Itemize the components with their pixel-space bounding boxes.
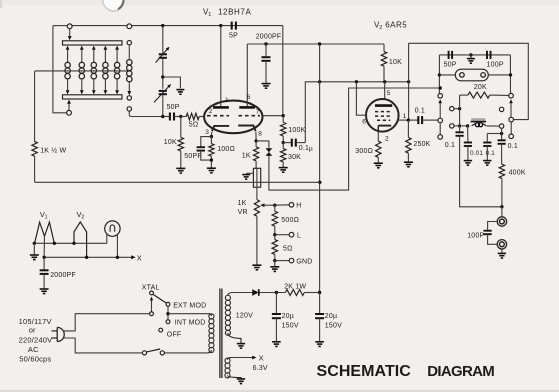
node: oval row left bbox=[438, 73, 441, 76]
label 20µ 150V (1) bbox=[282, 313, 299, 329]
wire: branch to 50PF bbox=[201, 137, 212, 147]
ground below 0.01 bbox=[464, 161, 472, 166]
switch bar bottom (band selector) bbox=[63, 95, 123, 99]
ground 6.3V secondary bbox=[237, 379, 245, 384]
capacitor 100P (range) bbox=[487, 51, 491, 59]
label 500Ω bbox=[281, 217, 299, 224]
resistor 10K (grid leak) bbox=[178, 137, 183, 151]
svg-text:X: X bbox=[259, 353, 264, 362]
node: GND junction bbox=[273, 259, 276, 262]
heater V1 filament bbox=[35, 222, 55, 243]
capacitor 0.1 (left) bbox=[456, 132, 464, 136]
wire: lead through shield to VR bbox=[256, 168, 258, 199]
svg-text:100P: 100P bbox=[487, 61, 504, 68]
label 100P (output) bbox=[467, 233, 484, 240]
ground below attenuator bbox=[270, 267, 279, 272]
switch D contact 1 bbox=[499, 107, 503, 111]
V1 grid 2 dashed bbox=[239, 115, 261, 117]
svg-text:300Ω: 300Ω bbox=[355, 148, 373, 155]
node: grid line left bbox=[161, 115, 164, 118]
svg-text:1: 1 bbox=[225, 97, 229, 104]
switch C wiper blade bbox=[509, 99, 513, 117]
wire: from lower terminal to grid line bbox=[129, 111, 163, 116]
label XTAL bbox=[142, 284, 160, 291]
node: riser/pin5 branch bbox=[383, 80, 386, 83]
svg-text:100K: 100K bbox=[288, 127, 305, 134]
pilot lamp bbox=[105, 221, 120, 236]
node: pin 8 junction bbox=[254, 139, 257, 142]
svg-text:3: 3 bbox=[205, 129, 209, 136]
label L bbox=[297, 233, 301, 240]
pin label 1 (V2) bbox=[403, 113, 407, 120]
label OFF bbox=[167, 331, 182, 338]
transformer primary winding bbox=[207, 314, 214, 353]
punch hole bbox=[103, 0, 124, 11]
V2 plate bar bbox=[375, 104, 392, 107]
wire: 2K to B+ node bbox=[304, 292, 319, 294]
resistor 2K 1W bbox=[285, 290, 304, 296]
power switch contact 1 bbox=[142, 351, 146, 355]
svg-text:2: 2 bbox=[209, 108, 213, 115]
terminal H bbox=[289, 203, 294, 208]
coil L2 with selector arrows bbox=[79, 46, 84, 95]
label INT MOD bbox=[175, 320, 206, 327]
label 1K VR bbox=[238, 200, 248, 216]
label 5Ω bbox=[189, 122, 199, 129]
capacitor 100P (output) bbox=[484, 231, 492, 235]
svg-text:H: H bbox=[296, 203, 301, 210]
ground cap row bbox=[467, 59, 475, 64]
svg-text:120V: 120V bbox=[236, 313, 253, 320]
pin label 7 bbox=[256, 109, 260, 116]
label V1 (heater) bbox=[40, 210, 48, 220]
capacitor 50PF bbox=[197, 147, 205, 150]
capacitor 20µ-1 bbox=[272, 293, 281, 342]
wire: rectifier bus bbox=[233, 292, 285, 294]
svg-text:0.1: 0.1 bbox=[299, 145, 309, 152]
resistor 100Ω (cathode 1) bbox=[209, 137, 214, 168]
node: B+ bus1 junction bbox=[318, 181, 321, 184]
svg-text:5Ω: 5Ω bbox=[189, 122, 199, 129]
switch A link bbox=[439, 123, 441, 135]
resistor 1K (cathode 2) bbox=[254, 141, 259, 168]
wire: heater bus 2 (X net) bbox=[44, 255, 136, 259]
svg-text:µ: µ bbox=[309, 146, 313, 153]
svg-text:0.01: 0.01 bbox=[470, 150, 483, 157]
node: pin7/100K junction bbox=[282, 114, 285, 117]
switch A contact 3 bbox=[438, 135, 443, 140]
resistor 5Ω (grid stopper) bbox=[181, 113, 205, 119]
variable capacitor CV1 (tuning) bbox=[156, 47, 170, 63]
svg-text:GND: GND bbox=[296, 259, 312, 266]
label H bbox=[296, 203, 301, 210]
wire: pin 6 branch bbox=[356, 82, 366, 115]
label 2K 1W bbox=[284, 284, 306, 291]
variable capacitor CV2 (trimmer) bbox=[154, 84, 171, 102]
svg-text:6AR5: 6AR5 bbox=[385, 20, 407, 29]
wire: V1 heater center tap bbox=[43, 236, 45, 257]
resistor 250K bbox=[406, 120, 411, 162]
label 100P (range) bbox=[487, 61, 504, 68]
terminal bottom-left bbox=[67, 110, 72, 115]
V2 cathode bbox=[378, 126, 391, 132]
terminal EXT MOD bbox=[166, 302, 170, 306]
svg-text:1: 1 bbox=[208, 12, 211, 18]
V1 plate 2 lead bbox=[246, 44, 248, 106]
wire: B+ top bus (plate supply) bbox=[247, 43, 384, 45]
diode clamp branch wire bbox=[256, 141, 269, 148]
ground 20µ-1 bbox=[272, 342, 281, 347]
switch wafer A common bbox=[438, 94, 443, 99]
wire: branch to trimmer ground bbox=[163, 77, 181, 88]
svg-text:SCHEMATIC: SCHEMATIC bbox=[317, 363, 412, 380]
svg-text:220/240V: 220/240V bbox=[19, 335, 53, 344]
V1 plate 1 bar bbox=[213, 106, 229, 109]
wire: heater bus 1 bbox=[34, 242, 107, 244]
label 0.1µ bbox=[299, 145, 313, 153]
label 50P bbox=[167, 104, 180, 111]
label GND bbox=[296, 259, 312, 266]
node: oval row right bbox=[509, 73, 512, 76]
plug-in coil lower terminal 1 bbox=[127, 96, 131, 100]
svg-text:VR: VR bbox=[238, 209, 248, 216]
node: mod junction bbox=[166, 312, 169, 315]
node: heater bus1 left bbox=[33, 242, 36, 245]
terminal pivot bbox=[150, 312, 154, 316]
V2 grid 3 dashed bbox=[375, 111, 392, 113]
capacitor 20µ-2 bbox=[315, 293, 324, 342]
svg-text:50PF: 50PF bbox=[184, 153, 202, 160]
wire: pin 1 out bbox=[399, 119, 409, 121]
title SCHEMATIC DIAGRAM bbox=[317, 363, 495, 380]
label 5Ω (attenuator) bbox=[283, 246, 293, 253]
AC plug bbox=[51, 327, 64, 341]
switch blade XTAL-EXT bbox=[153, 294, 167, 303]
terminal T2 top-right bbox=[127, 24, 132, 29]
pin label 2 bbox=[209, 108, 213, 115]
svg-text:100Ω: 100Ω bbox=[217, 146, 235, 153]
wire: bottom-left terminal feed + arrow bbox=[67, 100, 71, 111]
label 20K bbox=[474, 84, 487, 91]
node: L junction bbox=[273, 233, 276, 236]
svg-text:2: 2 bbox=[385, 136, 389, 143]
output jack J2 (gnd) bbox=[497, 240, 506, 249]
label X (6.3V) bbox=[259, 353, 264, 362]
resistor 10K (V2 plate load) bbox=[381, 52, 386, 67]
wire: plug bottom lead bbox=[63, 338, 142, 353]
node: top bus to tuning cap bbox=[161, 24, 164, 27]
pin label 3 bbox=[205, 129, 209, 136]
svg-text:2000PF: 2000PF bbox=[256, 34, 282, 41]
wire: B+ rail vertical bbox=[319, 44, 321, 293]
wire: 100P to jack2 bbox=[488, 234, 498, 244]
iron-core choke bbox=[471, 118, 487, 127]
wire: oval right lead bbox=[488, 74, 510, 76]
V1 cathode 1 bbox=[212, 126, 229, 131]
node: output bus node bbox=[500, 205, 503, 208]
node: 2000PF tap bbox=[264, 42, 267, 45]
ground below 0.1 middle bbox=[483, 161, 491, 166]
wire: jog middle cap to D2 bbox=[487, 133, 501, 135]
label 0.1 (left) bbox=[445, 142, 455, 149]
label X bbox=[137, 253, 142, 262]
wire: left bracket around coil bank bbox=[53, 26, 67, 113]
label 100Ω bbox=[217, 146, 235, 153]
label 100K bbox=[288, 127, 305, 134]
wire: 10K grid leak drop bbox=[180, 117, 182, 138]
capacitor 2000PF (plate decoupling) bbox=[262, 44, 271, 83]
svg-text:0.1: 0.1 bbox=[415, 108, 425, 115]
switch wafer C common bbox=[509, 93, 514, 98]
label 50P (range) bbox=[444, 61, 457, 68]
wire: plug top lead bbox=[63, 314, 149, 331]
wire: top bus corner down to pin7 node bbox=[282, 26, 284, 116]
label 120V bbox=[236, 313, 253, 320]
transformer secondary 120V bbox=[225, 293, 241, 344]
label 0.1 (middle) bbox=[486, 150, 496, 157]
wire: 2000PF-2 to ground bbox=[43, 274, 45, 289]
wire: pivot riser with arrow bbox=[150, 297, 153, 312]
node: B2 node bbox=[458, 124, 461, 127]
V2 grid 1 dashed bbox=[377, 119, 390, 121]
label 5P bbox=[229, 33, 238, 40]
resistor 500Ω bbox=[272, 205, 277, 235]
diode pair (back-to-back) D1 bbox=[266, 148, 273, 156]
node: lamp on X bbox=[116, 256, 119, 259]
wire: attenuator ground stub bbox=[274, 261, 276, 267]
wire: shield ground stub bbox=[246, 172, 253, 174]
svg-text:1K: 1K bbox=[238, 200, 247, 207]
coil L4 with selector arrows bbox=[103, 46, 108, 95]
wire: 6.3V to X bbox=[231, 356, 256, 360]
node: grid junction bbox=[179, 115, 182, 118]
wire: pin1 riser from top bus C bbox=[408, 43, 410, 120]
wire: left column riser bbox=[438, 55, 440, 94]
svg-text:150V: 150V bbox=[325, 322, 342, 329]
svg-text:AC: AC bbox=[28, 345, 39, 354]
resistor 300Ω (V2 cathode) bbox=[376, 132, 381, 163]
ground below jack2 bbox=[498, 253, 506, 258]
label or bbox=[29, 326, 36, 335]
ground below 10K bbox=[176, 168, 185, 173]
wire: cap row top bbox=[439, 54, 510, 56]
ground 120V secondary bbox=[237, 344, 245, 349]
ground for shield bbox=[242, 175, 250, 180]
transformer core bbox=[220, 289, 222, 379]
node: riser/B+ rail cross bbox=[318, 80, 321, 83]
label 250K bbox=[413, 141, 430, 148]
wire: pin 7 to node bbox=[262, 115, 283, 117]
svg-text:50P: 50P bbox=[444, 61, 457, 68]
wire: jack2 ground stub bbox=[501, 249, 503, 253]
svg-text:INT MOD: INT MOD bbox=[175, 320, 206, 327]
svg-text:0.1: 0.1 bbox=[445, 142, 455, 149]
capacitor 0.1 (right) bbox=[498, 128, 506, 164]
terminal OFF bbox=[159, 328, 163, 332]
wire: heater bus1 ground stub bbox=[33, 243, 35, 254]
svg-text:50P: 50P bbox=[167, 104, 180, 111]
capacitor 5P (interstage) bbox=[232, 22, 236, 30]
svg-text:5Ω: 5Ω bbox=[283, 246, 293, 253]
pin label 2 bbox=[385, 136, 389, 143]
terminal INT MOD bbox=[166, 320, 170, 324]
wire: 10K to ground bbox=[180, 151, 182, 168]
node: VR feed join bbox=[439, 86, 442, 89]
label 220/240V bbox=[19, 335, 53, 344]
terminal L bbox=[289, 232, 294, 237]
wire: B+ corner to 10K bbox=[383, 44, 385, 52]
ground below 2000PF-2 bbox=[40, 289, 49, 294]
node: jog node bbox=[500, 132, 503, 135]
pin label 6 bbox=[247, 94, 251, 101]
output jack J1 (hot) bbox=[497, 217, 506, 226]
tube V1 12BH7A envelope bbox=[204, 101, 262, 134]
tube V2 6AR5 envelope bbox=[366, 99, 399, 132]
wire: EXT-INT link bbox=[167, 306, 169, 320]
V1 cathode 2 bbox=[238, 126, 256, 132]
node: cathode 1 junction bbox=[210, 135, 213, 138]
label AC bbox=[28, 345, 39, 354]
label V2 6AR5 bbox=[374, 20, 407, 30]
label 6.3V bbox=[253, 365, 268, 372]
ground below 2000PF bbox=[262, 84, 271, 89]
svg-text:or: or bbox=[29, 326, 36, 335]
resistor 20K bbox=[460, 92, 509, 98]
capacitor 50P (range) bbox=[449, 51, 453, 59]
shield box around output lead bbox=[253, 168, 260, 187]
terminal XTAL bbox=[150, 291, 154, 295]
capacitor 2000PF (heater bypass) bbox=[40, 270, 49, 274]
label 50PF bbox=[184, 153, 202, 160]
label 1K ½ W bbox=[40, 147, 66, 155]
rectifier diode bbox=[252, 289, 259, 296]
ground below VR bbox=[252, 265, 261, 270]
capacitor 0.1 (output coupling) bbox=[408, 116, 438, 124]
resistor 5Ω (attenuator) bbox=[272, 235, 277, 261]
choke row wire left bbox=[462, 125, 468, 127]
wire: to GND terminal bbox=[275, 260, 289, 262]
svg-text:EXT MOD: EXT MOD bbox=[173, 303, 206, 310]
svg-text:5P: 5P bbox=[229, 33, 238, 40]
node: trimmer branch bbox=[161, 75, 164, 78]
wire: CV2 down to grid line bbox=[162, 94, 164, 116]
node: riser right end bbox=[407, 80, 410, 83]
wire: lamp right lead bbox=[116, 234, 118, 257]
label V2 (heater) bbox=[77, 210, 85, 220]
wire: B+ bus1 to oscillator bbox=[35, 181, 320, 183]
svg-text:2000PF: 2000PF bbox=[50, 272, 76, 279]
svg-text:10K: 10K bbox=[389, 59, 402, 66]
node: pin 1 junction bbox=[407, 118, 410, 121]
node: B+ rail top bbox=[318, 42, 321, 45]
svg-text:100P: 100P bbox=[467, 233, 484, 240]
svg-text:OFF: OFF bbox=[167, 331, 182, 338]
switch C link bbox=[510, 122, 512, 134]
pin label 1 bbox=[225, 97, 229, 104]
svg-text:1K ½ W: 1K ½ W bbox=[40, 147, 66, 155]
VR wiper arrow bbox=[260, 203, 275, 207]
node: divider tap bbox=[282, 141, 285, 144]
label 105/117V bbox=[19, 317, 52, 326]
svg-text:20µ: 20µ bbox=[325, 313, 337, 320]
svg-text:2: 2 bbox=[81, 214, 84, 220]
wire: coil tap line bbox=[35, 70, 131, 72]
svg-text:DIAGRAM: DIAGRAM bbox=[427, 363, 494, 380]
switch bar top (band selector) bbox=[63, 41, 123, 45]
ground 20µ-2 bbox=[315, 342, 324, 347]
svg-text:0.1: 0.1 bbox=[508, 143, 518, 150]
svg-text:7: 7 bbox=[256, 109, 260, 116]
svg-text:20µ: 20µ bbox=[282, 313, 294, 320]
heater V2 filament bbox=[74, 222, 87, 257]
potentiometer 1K VR bbox=[254, 200, 259, 265]
wire: coupling riser to V2 grid row bbox=[305, 82, 408, 143]
label 10K (V2) bbox=[389, 59, 402, 66]
wire: right column riser bbox=[509, 55, 511, 93]
label 0.01 bbox=[470, 150, 483, 157]
svg-text:8: 8 bbox=[258, 130, 262, 137]
wire: B1 stub bbox=[454, 108, 460, 110]
pin label 6 (V2) bbox=[362, 119, 366, 126]
wire: 0.1 left down to out bus bbox=[460, 136, 502, 207]
switch C contact 3 bbox=[509, 134, 514, 139]
svg-text:150V: 150V bbox=[282, 322, 299, 329]
ground heater bus bbox=[30, 255, 39, 260]
wire: 10K to pin 5 bbox=[383, 66, 386, 99]
ground below 300Ω bbox=[374, 163, 383, 168]
svg-text:6.3V: 6.3V bbox=[253, 365, 268, 372]
label 400K bbox=[509, 170, 526, 177]
V1 plate 1 lead from top bus bbox=[219, 24, 222, 106]
svg-text:XTAL: XTAL bbox=[142, 284, 160, 291]
wire: switch to primary bbox=[164, 352, 207, 354]
node: 100Ω bottom bbox=[210, 158, 213, 161]
wire: to H terminal bbox=[275, 204, 289, 206]
capacitor 50P (grid series) bbox=[165, 113, 181, 121]
wire: bus C to right loop bbox=[409, 43, 529, 119]
node: cap row ground tap bbox=[469, 53, 472, 58]
svg-text:X: X bbox=[137, 253, 142, 262]
node: wiper junction bbox=[273, 204, 276, 207]
svg-text:1: 1 bbox=[403, 113, 407, 120]
label 50/60cps bbox=[19, 355, 51, 364]
wire: to L terminal bbox=[275, 234, 289, 236]
terminal GND bbox=[289, 258, 294, 263]
transformer secondary 6.3V bbox=[225, 358, 241, 379]
neon lamp oval bbox=[455, 69, 488, 81]
switch B contact 1 bbox=[450, 107, 454, 111]
svg-text:2K 1W: 2K 1W bbox=[284, 284, 306, 291]
resistor 30K bbox=[281, 143, 286, 168]
ground below 30K bbox=[279, 168, 288, 173]
wire: lamp left lead bbox=[106, 234, 108, 243]
svg-text:5: 5 bbox=[387, 90, 391, 97]
label 0.1 (right) bbox=[508, 143, 518, 150]
svg-text:1: 1 bbox=[45, 214, 48, 220]
coil L3 with selector arrows bbox=[91, 46, 96, 95]
label 300Ω bbox=[355, 148, 373, 155]
label EXT MOD bbox=[173, 303, 206, 310]
switch A contact 2 bbox=[438, 118, 443, 123]
svg-text:6: 6 bbox=[247, 94, 251, 101]
svg-text:20K: 20K bbox=[474, 84, 487, 91]
ground for trimmer branch bbox=[176, 90, 184, 95]
node: B+ output bbox=[318, 291, 321, 294]
node: X net left bbox=[42, 256, 45, 259]
wire: top bus A from left bracket to C-282 corner bbox=[53, 25, 283, 27]
V1 plate 2 bar bbox=[239, 106, 255, 109]
svg-text:6: 6 bbox=[362, 119, 366, 126]
